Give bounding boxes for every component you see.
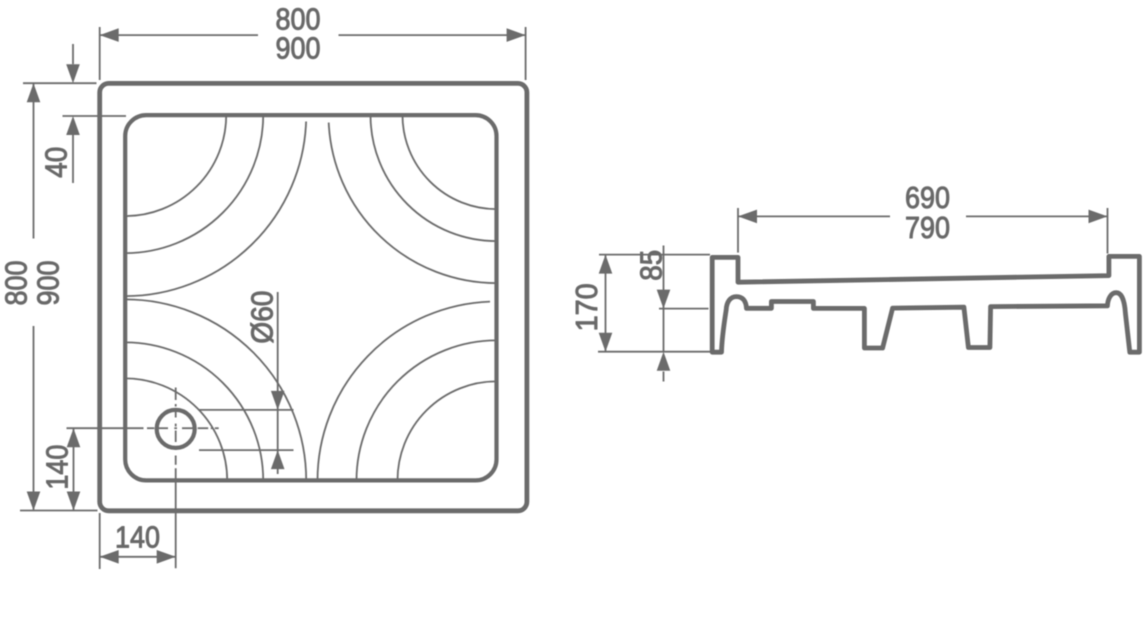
dimension 170: dimension line	[605, 255, 607, 352]
side view tray profile	[712, 256, 1139, 352]
dimension 800/900 left: extension lines	[20, 83, 98, 510]
svg-text:40: 40	[40, 147, 74, 178]
svg-text:85: 85	[634, 250, 668, 281]
dimension 690/790: arrows	[738, 210, 1108, 224]
dimension D60: dimension line	[277, 292, 279, 474]
dimension 85: dimension line	[663, 246, 665, 382]
dimension 800/900 left: labels (rotated)	[0, 261, 66, 306]
svg-text:170: 170	[570, 283, 604, 331]
anti-slip arcs top-left corner	[125, 115, 306, 296]
dimension 85: extension line (mid ledge)	[659, 308, 709, 310]
inner tray floor (rounded square)	[125, 115, 496, 480]
dimension 800/900 top: dimension line	[100, 34, 526, 36]
dimension D60: arrows	[271, 391, 285, 469]
dimension 40: dimension line	[72, 44, 74, 183]
dimension 800/900 top: labels	[276, 2, 321, 65]
anti-slip arcs top-right corner	[329, 115, 497, 283]
svg-text:Ø60: Ø60	[246, 291, 280, 344]
dimension 800/900 top: arrows	[100, 28, 526, 42]
dimension 140 bottom: extension line	[99, 513, 101, 569]
svg-text:140: 140	[41, 445, 75, 490]
dimension 85: arrows	[657, 290, 671, 371]
anti-slip arcs bottom-left corner	[125, 299, 306, 480]
svg-text:900: 900	[276, 32, 321, 66]
dimension 140 bottom: arrows	[100, 550, 176, 564]
drain centerline vertical	[175, 388, 177, 569]
dimension 170: extension lines	[598, 255, 710, 352]
svg-text:690: 690	[905, 181, 950, 215]
dimension 140 bottom: dimension line	[100, 556, 176, 558]
dimension D60: tangent extension lines	[199, 410, 294, 450]
dimension 40: arrows	[66, 64, 80, 135]
svg-text:140: 140	[115, 521, 160, 555]
svg-text:900: 900	[32, 261, 66, 306]
anti-slip arcs bottom-right corner	[318, 302, 497, 481]
drain centerline horizontal	[67, 427, 219, 429]
dimension 140 left: arrows	[67, 428, 81, 510]
dimension 690/790: labels	[905, 181, 950, 245]
dimension 40: extension line (inner rim)	[63, 115, 127, 117]
dimension 170: arrows	[599, 255, 613, 352]
dimension 140 left: dimension line	[73, 428, 75, 510]
svg-text:800: 800	[0, 261, 34, 306]
drain circle	[157, 410, 195, 448]
outer tray rim (top view square)	[100, 83, 527, 510]
dimension 800/900 left: dimension line	[33, 84, 35, 510]
svg-text:790: 790	[905, 211, 950, 245]
dimension 690/790: dimension line	[738, 215, 1108, 217]
dimension 690/790: extension lines	[738, 208, 1108, 254]
dimension 800/900 top: extension lines	[100, 27, 526, 80]
dimension 800/900 left: arrows	[27, 83, 41, 510]
